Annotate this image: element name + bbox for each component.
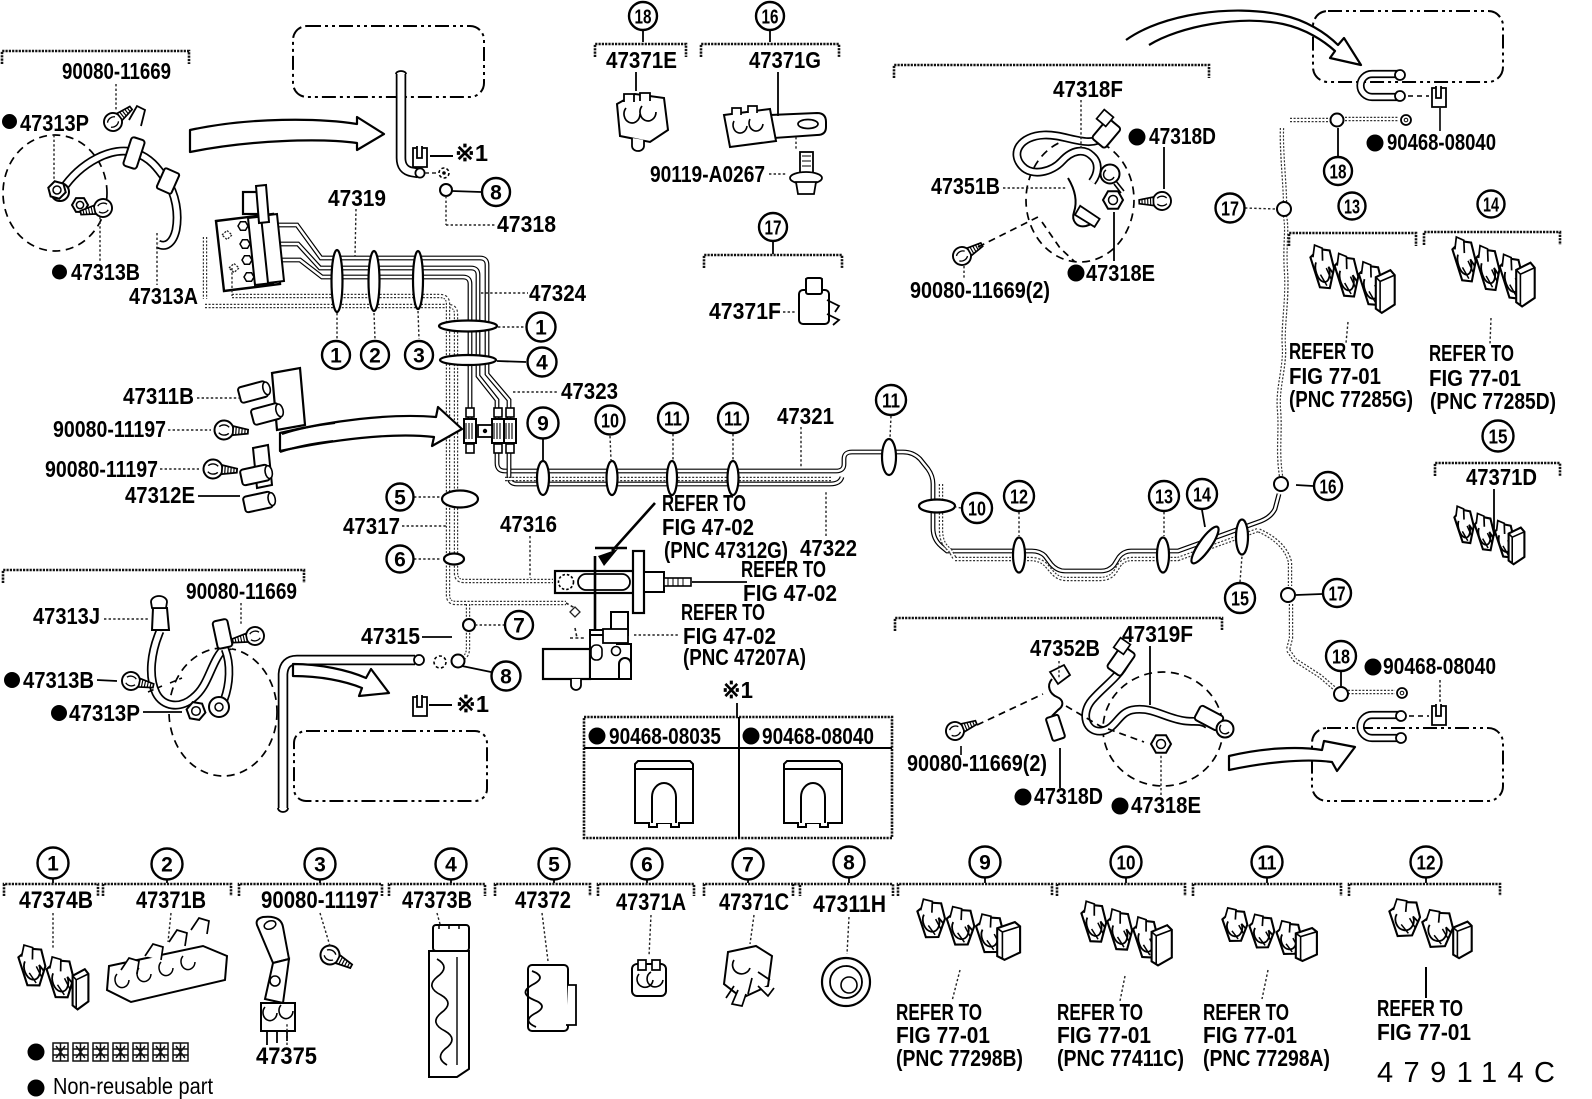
svg-text:47371F: 47371F: [709, 298, 781, 324]
svg-text:10: 10: [601, 411, 619, 433]
svg-text:47321: 47321: [777, 403, 834, 429]
svg-text:90468-08040: 90468-08040: [762, 723, 874, 749]
svg-text:15: 15: [1489, 427, 1508, 449]
svg-text:16: 16: [762, 7, 779, 29]
svg-text:47323: 47323: [561, 378, 618, 404]
svg-text:90080-11669: 90080-11669: [186, 578, 297, 604]
svg-text:11: 11: [1258, 853, 1277, 875]
svg-text:479114C: 479114C: [1377, 1057, 1555, 1089]
svg-text:1: 1: [535, 317, 547, 340]
svg-text:※1: ※1: [456, 691, 489, 717]
svg-text:2: 2: [161, 854, 173, 877]
svg-text:18: 18: [635, 7, 652, 29]
svg-text:47371G: 47371G: [749, 47, 821, 73]
svg-text:90080-11669: 90080-11669: [62, 58, 171, 84]
svg-text:※1: ※1: [455, 140, 488, 166]
svg-text:6: 6: [641, 854, 653, 877]
svg-text:47318D: 47318D: [1149, 123, 1216, 149]
svg-text:13: 13: [1344, 197, 1360, 219]
svg-text:47373B: 47373B: [402, 887, 472, 914]
svg-text:47313J: 47313J: [33, 603, 100, 629]
svg-text:47318D: 47318D: [1034, 783, 1103, 809]
svg-text:90080-11669(2): 90080-11669(2): [910, 277, 1050, 303]
svg-text:47318: 47318: [497, 211, 556, 237]
svg-text:(PNC 77298B): (PNC 77298B): [896, 1045, 1023, 1071]
svg-text:(PNC 47207A): (PNC 47207A): [683, 644, 806, 670]
svg-text:47311B: 47311B: [123, 383, 194, 409]
svg-text:16: 16: [1320, 477, 1337, 499]
svg-text:6: 6: [394, 549, 406, 572]
svg-text:90080-11197: 90080-11197: [45, 456, 158, 482]
svg-text:90468-08040: 90468-08040: [1383, 653, 1496, 679]
svg-text:3: 3: [413, 345, 425, 368]
svg-text:REFER TO: REFER TO: [1377, 995, 1463, 1021]
svg-text:47352B: 47352B: [1030, 635, 1100, 661]
svg-text:47319: 47319: [328, 185, 386, 211]
svg-text:5: 5: [394, 487, 406, 510]
svg-text:47313P: 47313P: [20, 110, 89, 136]
svg-text:47313B: 47313B: [23, 667, 94, 693]
svg-text:11: 11: [882, 391, 900, 413]
svg-text:47371C: 47371C: [719, 889, 789, 916]
svg-text:8: 8: [500, 666, 512, 689]
svg-text:47318E: 47318E: [1086, 260, 1155, 286]
svg-text:47315: 47315: [361, 623, 420, 649]
svg-text:REFER TO: REFER TO: [1289, 338, 1374, 364]
svg-text:(PNC 77298A): (PNC 77298A): [1203, 1045, 1330, 1071]
svg-text:12: 12: [1010, 487, 1028, 509]
svg-text:17: 17: [765, 218, 782, 240]
svg-text:1: 1: [47, 853, 59, 876]
svg-text:9: 9: [979, 852, 991, 875]
svg-text:※1: ※1: [722, 677, 753, 703]
svg-text:47371A: 47371A: [616, 889, 686, 916]
svg-text:14: 14: [1483, 195, 1500, 217]
svg-text:47312E: 47312E: [125, 482, 195, 508]
svg-text:1: 1: [330, 345, 342, 368]
svg-text:47318E: 47318E: [1131, 792, 1201, 818]
svg-text:47374B: 47374B: [19, 887, 93, 914]
svg-text:9: 9: [537, 413, 549, 436]
svg-text:14: 14: [1193, 485, 1212, 507]
svg-text:47313A: 47313A: [129, 283, 198, 309]
svg-text:47316: 47316: [500, 511, 557, 537]
svg-text:47371B: 47371B: [136, 887, 206, 914]
svg-text:47351B: 47351B: [931, 173, 1000, 199]
svg-text:(PNC 77285G): (PNC 77285G): [1289, 386, 1413, 412]
svg-text:10: 10: [1117, 853, 1136, 875]
svg-text:47324: 47324: [529, 280, 586, 306]
svg-text:11: 11: [664, 409, 682, 431]
svg-text:47317: 47317: [343, 513, 400, 539]
svg-text:7: 7: [513, 615, 525, 638]
svg-text:47372: 47372: [515, 887, 571, 914]
svg-text:47313P: 47313P: [69, 700, 140, 726]
svg-text:(PNC 77285D): (PNC 77285D): [1430, 388, 1556, 414]
svg-text:REFER TO: REFER TO: [662, 490, 746, 516]
svg-text:47371E: 47371E: [606, 47, 677, 73]
svg-text:47318F: 47318F: [1053, 76, 1123, 102]
svg-text:REFER TO: REFER TO: [681, 599, 765, 625]
svg-text:FIG 77-01: FIG 77-01: [1377, 1019, 1471, 1045]
svg-text:11: 11: [724, 409, 742, 431]
svg-text:90468-08035: 90468-08035: [609, 723, 721, 749]
svg-text:17: 17: [1221, 199, 1239, 221]
svg-text:3: 3: [314, 854, 326, 877]
svg-text:90468-08040: 90468-08040: [1387, 129, 1496, 155]
svg-text:10: 10: [968, 499, 986, 521]
svg-text:2: 2: [369, 345, 381, 368]
svg-text:(PNC 77411C): (PNC 77411C): [1057, 1045, 1184, 1071]
svg-text:17: 17: [1329, 584, 1346, 606]
svg-text:90080-11197: 90080-11197: [261, 887, 379, 914]
svg-text:47375: 47375: [256, 1043, 317, 1070]
svg-text:8: 8: [843, 852, 855, 875]
svg-text:7: 7: [742, 854, 754, 877]
svg-text:12: 12: [1417, 853, 1436, 875]
svg-text:15: 15: [1231, 589, 1249, 611]
svg-text:18: 18: [1330, 162, 1347, 184]
svg-text:90080-11669(2): 90080-11669(2): [907, 750, 1047, 776]
svg-text:8: 8: [490, 182, 502, 205]
svg-text:47311H: 47311H: [813, 891, 886, 918]
svg-text:4: 4: [536, 352, 548, 375]
svg-text:4: 4: [445, 854, 457, 877]
svg-text:90080-11197: 90080-11197: [53, 416, 166, 442]
svg-text:Non-reusable part: Non-reusable part: [53, 1073, 214, 1099]
svg-text:REFER TO: REFER TO: [1429, 340, 1514, 366]
svg-text:90119-A0267: 90119-A0267: [650, 161, 765, 187]
svg-text:47313B: 47313B: [71, 259, 140, 285]
svg-text:5: 5: [548, 854, 560, 877]
svg-text:18: 18: [1332, 647, 1350, 669]
svg-text:47319F: 47319F: [1122, 621, 1193, 647]
svg-text:47371D: 47371D: [1466, 464, 1537, 490]
svg-text:13: 13: [1155, 487, 1173, 509]
svg-text:REFER TO: REFER TO: [741, 556, 826, 582]
